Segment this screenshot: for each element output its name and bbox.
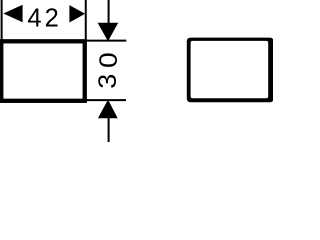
svg-text:4: 4 [27, 4, 41, 32]
svg-text:3: 3 [93, 74, 122, 89]
svg-text:2: 2 [45, 4, 59, 32]
svg-text:0: 0 [95, 52, 123, 68]
